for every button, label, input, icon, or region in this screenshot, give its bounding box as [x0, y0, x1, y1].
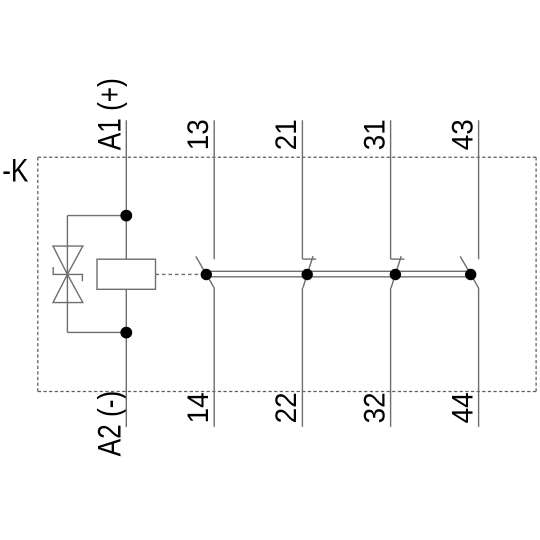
svg-text:A1 (+): A1 (+) [93, 78, 128, 150]
svg-text:A2 (-): A2 (-) [93, 391, 128, 457]
svg-text:14: 14 [182, 392, 215, 423]
contact 31-32 NC: wire 32 bottom [390, 288, 392, 427]
junction node A2 branch [120, 327, 132, 339]
contact 21-22 NC: moving arm [303, 256, 313, 288]
wire A2 lead [125, 289, 127, 427]
contact 13-14 NO: wire 13 top [213, 120, 215, 259]
contact 31-32 NC: linkage node [390, 269, 401, 280]
wire suppressor branch vertical [66, 216, 68, 333]
contact 43-44 NO: linkage node [465, 269, 476, 280]
coil K (operating coil rectangle) [97, 259, 156, 289]
contact 13-14 NO: wire 14 bottom [213, 288, 215, 427]
svg-text:21: 21 [270, 119, 303, 150]
svg-text:13: 13 [182, 119, 215, 150]
contact 43-44 NO: moving arm [460, 256, 478, 288]
svg-text:31: 31 [358, 119, 391, 150]
linkage bar upper line [206, 270, 470, 272]
svg-text:32: 32 [358, 392, 391, 423]
svg-text:22: 22 [270, 392, 303, 423]
contact 21-22 NC: seat [302, 258, 316, 260]
contact 31-32 NC: seat [391, 258, 405, 260]
wire A1 lead [125, 120, 127, 259]
junction node A1 branch [120, 210, 132, 222]
contact 13-14 NO: moving arm [196, 256, 214, 288]
svg-text:44: 44 [446, 392, 479, 423]
svg-text:43: 43 [446, 119, 479, 150]
contact 21-22 NC: linkage node [302, 269, 313, 280]
suppressor diode bidirectional (surge suppressor) [53, 246, 83, 303]
mechanical link dashed [156, 273, 201, 275]
contact 31-32 NC: moving arm [391, 256, 401, 288]
contact 13-14 NO: linkage node [201, 269, 212, 280]
contact 21-22 NC: wire 22 bottom [301, 288, 303, 427]
svg-text:-K: -K [2, 154, 29, 189]
contact 21-22 NC: wire 21 top [301, 120, 303, 259]
dashed enclosure boundary [38, 157, 536, 391]
contact 31-32 NC: wire 31 top [390, 120, 392, 259]
contact 43-44 NO: wire 43 top [478, 120, 480, 259]
wire suppressor branch top [67, 215, 126, 217]
linkage bar lower line [206, 276, 470, 278]
wire suppressor branch bottom [67, 331, 126, 333]
contact 43-44 NO: wire 44 bottom [478, 288, 480, 427]
